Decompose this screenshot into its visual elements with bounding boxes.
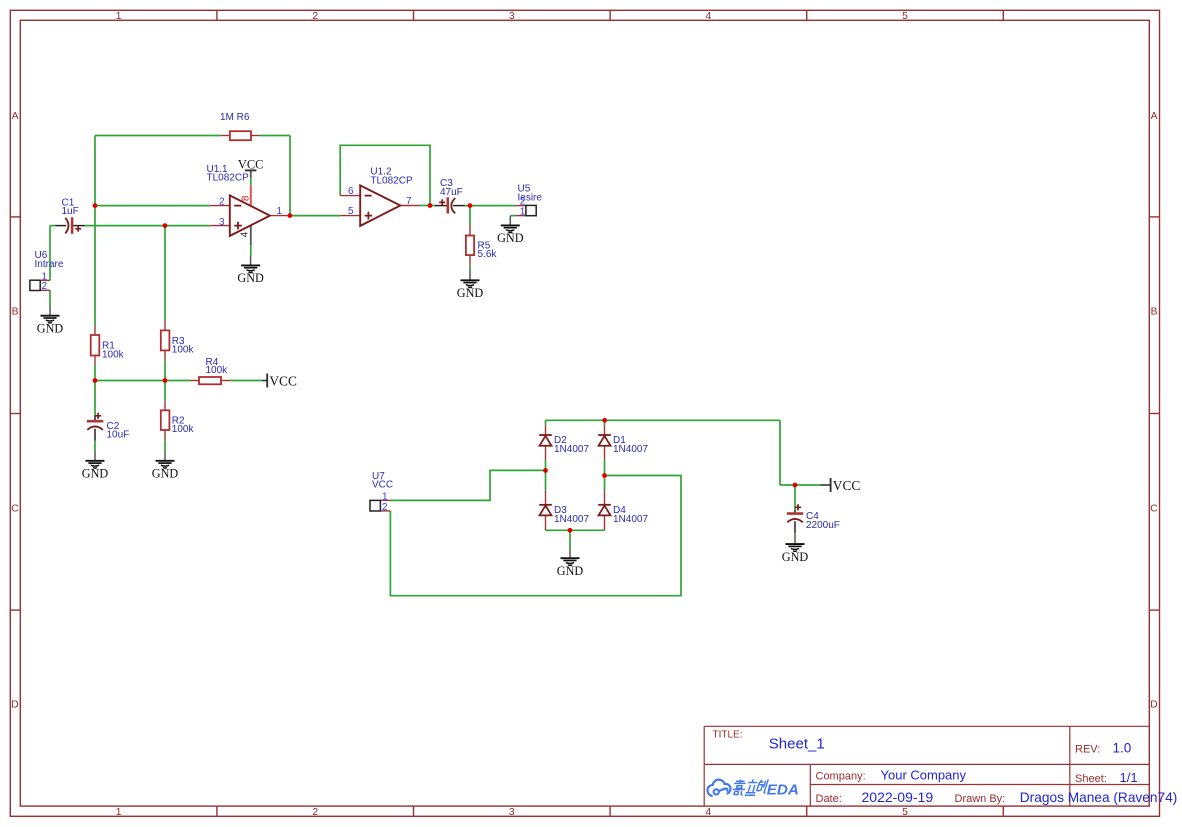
ground below C2 [82,451,109,481]
wire D2 top [545,420,547,425]
svg-text:2022-09-19: 2022-09-19 [862,789,934,805]
junction node pin3 [163,223,168,228]
svg-text:1N4007: 1N4007 [613,444,648,455]
wire R3 top [164,226,166,321]
wire C1 left [50,225,55,227]
diode D4 [598,490,648,530]
ground below U6 [37,306,64,336]
svg-text:A: A [12,111,19,122]
wire R2 to ground [164,441,166,451]
op-amp U1.2 [340,167,420,226]
wire feedback vertical to node out1 [289,136,291,216]
logo EasyEDA cloud icon [707,780,730,796]
wire out1 to pin 5 [290,215,340,217]
svg-text:10uF: 10uF [107,430,130,441]
wire D1 top [604,420,606,425]
svg-text:Dragos Manea (Raven74): Dragos Manea (Raven74) [1020,790,1178,805]
svg-text:2: 2 [312,807,318,818]
resistor R4 [191,357,231,385]
resistor R1 [91,326,125,366]
svg-text:EDA: EDA [767,782,799,799]
wire U5 pin1 stub [510,215,515,217]
svg-text:TL082CP: TL082CP [207,173,250,184]
svg-text:3: 3 [509,11,515,22]
ground below U5 [497,216,524,246]
svg-text:7: 7 [406,196,412,207]
wire to pin 2 [95,205,210,207]
ground below R5 [457,271,484,301]
wire R1 to C2 [94,366,96,417]
junction node bridge left [543,468,548,473]
wire C4 node to VCC flag [780,484,821,486]
VCC flag right of R4 [262,373,297,388]
svg-text:2: 2 [219,196,225,207]
connector U5 [516,184,543,218]
svg-text:4: 4 [240,231,251,237]
connector U6 [30,250,64,292]
svg-text:47uF: 47uF [440,187,463,198]
svg-text:A: A [1151,111,1158,122]
wire node row to R4 [95,380,191,382]
junction node out7 [428,203,433,208]
wire R6 right [260,135,290,137]
wire R6 left [95,135,221,137]
ground below U1.1 [237,256,264,285]
wire bridge to ground [569,530,571,548]
junction node R1 row [93,378,98,383]
svg-text:C: C [1150,504,1158,515]
wire U1.1 pin4 segment [250,245,252,256]
wire R4 to VCC [230,380,262,382]
svg-text:Sheet:: Sheet: [1075,773,1107,785]
resistor R6 [220,112,260,140]
svg-text:100k: 100k [172,424,195,435]
svg-text:C: C [11,504,19,515]
svg-text:1N4007: 1N4007 [554,514,589,525]
ground below R2 [152,451,179,481]
svg-text:1M R6: 1M R6 [220,112,250,123]
VCC flag at U1.1 pin 8 [238,157,263,178]
junction node R3 row [163,378,168,383]
svg-text:Sheet_1: Sheet_1 [769,736,825,753]
wire D2 to D3 [545,460,547,491]
svg-text:6: 6 [348,186,354,197]
capacitor C2 [87,413,129,441]
svg-text:TL082CP: TL082CP [370,175,413,186]
wire D1 to D4 [604,460,606,491]
logo text 嘉立创 (simplified strokes) [732,779,769,795]
svg-text:Intrare: Intrare [35,259,64,270]
wire node to R5 [469,206,471,226]
svg-text:2: 2 [42,281,48,292]
wire left branch vertical to R1 [94,136,96,326]
wire bridge right loop to U7 pin2 [390,476,681,596]
diode D3 [539,490,589,530]
svg-text:5: 5 [902,11,908,22]
wire C4 to ground [794,533,796,535]
svg-text:4: 4 [706,807,712,818]
wire C3 to U5 [465,205,516,207]
junction node bridge right [602,473,607,478]
junction node out1 [288,213,293,218]
ground below C4 [782,534,809,564]
wire bridge top rail [546,419,781,421]
svg-text:2200uF: 2200uF [806,520,840,531]
svg-text:1: 1 [520,207,526,218]
svg-text:VCC: VCC [372,480,393,491]
svg-text:5: 5 [902,807,908,818]
svg-text:2: 2 [312,11,318,22]
svg-text:Company:: Company: [816,770,866,782]
wire C1 to pin 3 [85,225,210,227]
svg-text:Date:: Date: [816,793,842,805]
svg-text:B: B [1151,307,1158,318]
wire U1.1 pin8 segment [250,178,252,185]
diode D2 [539,425,589,460]
ground below bridge [557,549,584,579]
svg-text:Your Company: Your Company [881,768,967,783]
svg-text:3: 3 [219,217,225,228]
title block [704,726,1177,806]
svg-text:D: D [1150,700,1157,711]
VCC flag right of C4 node [821,478,861,493]
op-amp U1.1 [207,164,290,245]
junction node C4 [793,483,798,488]
svg-text:100k: 100k [206,365,229,376]
svg-text:1N4007: 1N4007 [554,444,589,455]
svg-text:5: 5 [348,206,354,217]
svg-text:100k: 100k [102,349,125,360]
wire R5 to ground [469,266,471,271]
svg-text:1N4007: 1N4007 [613,514,648,525]
connector U7 [370,471,393,513]
svg-text:8: 8 [241,195,252,201]
junction node C3 out [468,203,473,208]
capacitor C1 [55,197,84,234]
svg-text:3: 3 [509,807,515,818]
wire R3 to R2 [164,360,166,400]
svg-text:1: 1 [116,11,122,22]
wire out7 to C3 [420,205,435,207]
resistor R3 [161,320,195,360]
resistor R2 [161,400,195,440]
svg-text:5.6k: 5.6k [478,249,498,260]
wire top rail down to C4 node [779,420,781,485]
svg-text:1: 1 [277,206,283,217]
svg-text:1/1: 1/1 [1120,770,1138,785]
svg-text:1uF: 1uF [62,206,79,217]
wire bridge bottom rail [546,529,605,531]
wire node to C4 [794,485,796,510]
svg-text:TITLE:: TITLE: [713,730,743,741]
svg-text:Drawn By:: Drawn By: [955,793,1006,805]
resistor R5 [466,226,498,266]
svg-text:1: 1 [382,492,388,503]
capacitor C3 [435,178,465,214]
junction node top rail [602,418,607,423]
junction node bridge bottom [568,528,573,533]
wire U6 pin1 riser [49,226,51,281]
junction node pin2 [93,203,98,208]
capacitor C4 [787,504,840,533]
svg-text:2: 2 [382,502,388,513]
svg-text:1.0: 1.0 [1113,741,1132,756]
svg-text:4: 4 [706,11,712,22]
svg-text:100k: 100k [172,345,195,356]
wire U6 pin2 to ground [49,290,51,306]
svg-text:D: D [11,700,18,711]
wire U7 pin1 to bridge left node [390,470,545,500]
svg-text:REV:: REV: [1075,744,1100,756]
diode D1 [598,425,648,460]
svg-text:B: B [12,307,19,318]
svg-text:1: 1 [116,807,122,818]
wire C2 to ground [94,441,96,451]
wire U1.2 feedback loop [340,145,430,205]
